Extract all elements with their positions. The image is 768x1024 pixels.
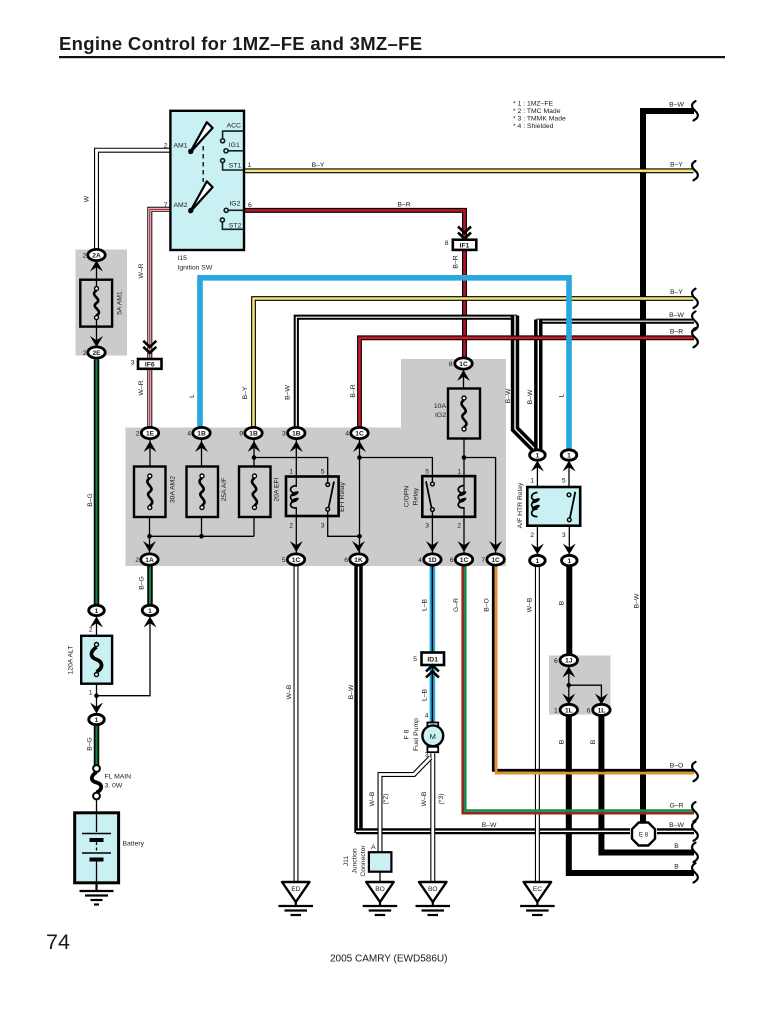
svg-text:L: L: [189, 394, 196, 398]
svg-text:3: 3: [425, 523, 429, 530]
svg-text:L–B: L–B: [422, 688, 429, 701]
wire J11 to ground BO: [379, 872, 381, 882]
svg-text:1C: 1C: [355, 430, 364, 437]
svg-text:(*3): (*3): [438, 794, 445, 805]
wire W-R from AM2 through IF6 to 1E: [150, 209, 171, 426]
svg-text:* 1 : 1MZ–FE: * 1 : 1MZ–FE: [513, 101, 554, 108]
rotated component labels: [68, 291, 525, 877]
node IG2 fuse output dot: [462, 455, 467, 460]
connector 1L pin1: [560, 704, 577, 715]
arrow up into 1J: [562, 667, 575, 678]
fusible link FL MAIN: [92, 765, 101, 799]
arrows down into row2 connectors: [143, 541, 156, 552]
wire 10A IG2 out to C/OPN pin1: [463, 439, 465, 493]
arrows up into row1 connectors: [144, 441, 157, 452]
wire branch IG2 to 1C7: [464, 458, 496, 554]
svg-text:ACC: ACC: [227, 123, 241, 130]
connector 1B pin9: [245, 427, 262, 438]
fuse 25A A/F: [187, 467, 219, 518]
svg-text:3: 3: [131, 359, 135, 366]
node fuse bus dot 2: [199, 534, 204, 539]
connector 1K pin6: [350, 554, 367, 565]
wire B from 1L1 to right edge: [569, 715, 694, 873]
hook B-Y 1: [692, 161, 698, 180]
wire AF HTR pin5 stub: [568, 460, 570, 495]
wire W-B from AF HTR pin2 (1) to EC ground: [535, 567, 540, 882]
fuse 10A IG2: [448, 389, 480, 439]
svg-text:1: 1: [457, 469, 461, 476]
svg-text:(*2): (*2): [383, 794, 390, 805]
wire 1G to 10A IG2 fuse: [463, 369, 465, 389]
svg-text:2: 2: [457, 523, 461, 530]
svg-text:5: 5: [413, 656, 417, 663]
svg-text:IF1: IF1: [460, 243, 470, 250]
svg-text:20A EFI: 20A EFI: [274, 477, 281, 501]
connector 1C pin4: [351, 427, 368, 438]
connector 1L pin6: [593, 704, 610, 715]
svg-text:B–G: B–G: [139, 576, 146, 590]
wire W-B branch to J11: [380, 758, 431, 853]
svg-text:6: 6: [587, 708, 591, 715]
wire EFI relay pin5 branch from 1B9 line: [254, 458, 328, 485]
svg-text:FL MAIN: FL MAIN: [105, 774, 132, 781]
svg-text:3: 3: [321, 523, 325, 530]
svg-text:1K: 1K: [354, 557, 363, 564]
wire (1) to 120A ALT: [96, 616, 98, 636]
svg-text:IG1: IG1: [229, 142, 240, 149]
node 1C4 line upper dot: [357, 455, 362, 460]
svg-text:B–W: B–W: [669, 312, 684, 319]
fuel pump F8: [422, 723, 443, 753]
svg-text:1B: 1B: [197, 430, 206, 437]
wire 1E to 30A AM2 fuse: [149, 440, 151, 467]
ignition ST2 terminal: [222, 222, 243, 229]
wire 120A ALT to junction and (1): [96, 684, 98, 714]
svg-text:Engine Control for 1MZ–FE and: Engine Control for 1MZ–FE and 3MZ–FE: [59, 33, 422, 54]
svg-text:L: L: [559, 393, 566, 397]
svg-text:A: A: [371, 844, 376, 851]
ground EC: [520, 882, 555, 915]
svg-text:1L: 1L: [598, 707, 606, 714]
wire W-B fuel pump to BO ground: [430, 754, 435, 883]
ignition AM2 contact: [189, 181, 213, 212]
svg-text:2: 2: [135, 557, 139, 564]
svg-text:9: 9: [239, 431, 243, 438]
arrow up into 1G: [457, 370, 470, 381]
wire B-G from 2E to (1): [94, 360, 100, 606]
arrows down into AF HTR bottom (1) connectors: [531, 544, 544, 555]
svg-text:G–R: G–R: [453, 598, 460, 612]
svg-text:W–B: W–B: [369, 791, 376, 806]
connector ID1: [422, 653, 445, 666]
connector (1) AF top right: [561, 450, 577, 460]
svg-text:B–G: B–G: [87, 493, 94, 507]
wire B-W run A: 1B3 up over to AF HTR (1): [296, 316, 536, 451]
svg-text:Relay: Relay: [413, 487, 420, 505]
connector 2A: [88, 249, 105, 260]
fuse output bus: [150, 535, 255, 537]
svg-text:B–R: B–R: [453, 255, 460, 268]
node ALT output dot: [94, 693, 99, 698]
wire B from AF HTR pin3 (1) to 1J: [566, 566, 572, 656]
svg-text:L–B: L–B: [422, 598, 429, 611]
wire B-O from 1C7 to right edge: [493, 566, 694, 773]
wire B-W run B: right edge to AF HTR (1): [537, 320, 695, 451]
relay C/OPN Relay: [422, 476, 475, 517]
svg-text:1: 1: [536, 558, 540, 565]
ignition IG2 terminal: [228, 209, 243, 211]
svg-text:* 3 : TMMK Made: * 3 : TMMK Made: [513, 116, 566, 123]
svg-text:B–Y: B–Y: [312, 162, 325, 169]
svg-text:ID1: ID1: [427, 657, 438, 664]
svg-text:2: 2: [289, 523, 293, 530]
svg-text:W–B: W–B: [421, 791, 428, 806]
svg-text:EFI Relay: EFI Relay: [339, 481, 346, 511]
svg-text:4: 4: [425, 713, 429, 720]
title underline: [59, 56, 725, 58]
fuse 20A EFI: [239, 467, 271, 518]
svg-text:B–W: B–W: [527, 389, 534, 404]
svg-text:B–W: B–W: [505, 388, 512, 403]
svg-text:1C: 1C: [460, 557, 469, 564]
svg-text:1: 1: [148, 608, 152, 615]
wire 1B9 to 20A EFI fuse: [253, 440, 255, 467]
svg-text:W–R: W–R: [138, 263, 145, 278]
svg-text:6: 6: [344, 557, 348, 564]
node 1J branch dot: [567, 683, 572, 688]
connector (1) AF top left: [530, 450, 546, 460]
connector 1J pin6: [560, 655, 577, 666]
fuse 5A AM1: [80, 249, 112, 352]
wire 20A EFI to bus: [253, 517, 255, 536]
fuse 30A AM2: [134, 467, 166, 518]
svg-text:Battery: Battery: [123, 841, 145, 848]
svg-text:2: 2: [530, 532, 534, 539]
hook B-W mid: [692, 311, 698, 330]
battery ground: [80, 883, 114, 905]
wire 1J to 1L1: [568, 685, 570, 704]
svg-text:B–W: B–W: [285, 385, 292, 400]
wire B from 1L6 to right edge: [601, 715, 694, 853]
svg-text:B–R: B–R: [397, 201, 410, 208]
svg-text:4: 4: [418, 557, 422, 564]
wire FL MAIN to battery: [96, 799, 98, 813]
svg-text:4: 4: [187, 431, 191, 438]
svg-text:BO: BO: [375, 886, 385, 893]
connector IF1: [453, 240, 477, 250]
wire AF HTR pin3 stub: [568, 521, 570, 555]
svg-text:1: 1: [95, 608, 99, 615]
svg-text:W: W: [84, 195, 91, 202]
ignition switch I15 box: [170, 111, 244, 250]
gray relay block box (upper, 10A IG2): [401, 359, 506, 428]
wire B-R from IG2 through IF1 to 1G: [244, 210, 465, 358]
wire ALT junction branch: [97, 616, 151, 696]
svg-text:IG2: IG2: [435, 412, 446, 419]
wire 1J to 1L branch: [569, 665, 602, 705]
connector 1B pin3: [288, 427, 305, 438]
hook B-W E8: [692, 822, 698, 841]
svg-text:B: B: [590, 739, 597, 744]
gray relay block box (small, 2A/2E 5A AM1): [76, 250, 128, 356]
ignition dashed link: [202, 146, 204, 182]
svg-text:1: 1: [567, 452, 571, 459]
svg-text:5: 5: [425, 469, 429, 476]
wire B-W thick from legend corner down to E8: [643, 111, 694, 823]
wire C/OPN coil pin2 to 1C6: [463, 507, 465, 553]
svg-text:8: 8: [445, 240, 449, 247]
connector 1G pin8: [455, 358, 472, 369]
legend note: [513, 101, 566, 131]
svg-text:B–W: B–W: [634, 593, 641, 608]
svg-text:2: 2: [136, 431, 140, 438]
svg-text:B–W: B–W: [482, 822, 497, 829]
svg-text:B–W: B–W: [669, 822, 684, 829]
rotated wire labels: [84, 195, 641, 806]
svg-text:B–O: B–O: [484, 598, 491, 612]
connector 1A: [141, 554, 158, 565]
svg-text:ED: ED: [291, 886, 300, 893]
svg-text:E 8: E 8: [639, 832, 649, 839]
wire 1C4 to 1K vertical: [359, 440, 361, 554]
svg-text:B: B: [674, 864, 679, 871]
svg-text:2: 2: [164, 143, 168, 150]
svg-text:C/OPN: C/OPN: [404, 486, 411, 508]
J11 junction connector box: [369, 852, 392, 872]
svg-text:1C: 1C: [459, 361, 468, 368]
hook G-R: [692, 802, 698, 821]
hook B-R: [692, 328, 698, 347]
wire L cyan from 1B4 over to AF HTR (1): [200, 278, 569, 450]
svg-text:AM1: AM1: [174, 143, 188, 150]
svg-text:F 8: F 8: [404, 729, 411, 739]
wire 25A AF to bus: [201, 517, 203, 536]
gray relay block box (main): [126, 428, 507, 567]
svg-text:B–Y: B–Y: [242, 386, 249, 399]
wire L-B from 1D through ID1 to fuel pump: [430, 566, 436, 723]
svg-text:2: 2: [83, 350, 87, 357]
arrow down into (1) below ALT: [90, 703, 103, 714]
svg-text:2: 2: [83, 253, 87, 260]
svg-text:1C: 1C: [292, 557, 301, 564]
svg-text:B–W: B–W: [669, 102, 684, 109]
connector 1D pin4: [424, 554, 441, 565]
svg-text:1: 1: [554, 708, 558, 715]
svg-text:30A AM2: 30A AM2: [170, 476, 177, 503]
arrow into ID1: [426, 665, 439, 677]
svg-text:2A: 2A: [92, 252, 101, 259]
svg-text:5: 5: [282, 557, 286, 564]
svg-text:3: 3: [425, 752, 429, 759]
connector E8 octagon: [632, 823, 655, 846]
connector (1) 1A side: [142, 605, 158, 615]
ground BO (J11): [363, 882, 398, 915]
svg-text:W–B: W–B: [527, 597, 534, 612]
svg-text:Junction: Junction: [352, 848, 359, 874]
arrows up into (1) ALT connectors: [90, 617, 103, 628]
wire B-Y from ST1 to right edge: [244, 168, 694, 173]
svg-text:6: 6: [554, 658, 558, 665]
ignition AM1 contact: [189, 122, 213, 153]
svg-text:A/F HTR Relay: A/F HTR Relay: [517, 482, 524, 528]
svg-text:10A: 10A: [434, 403, 447, 410]
svg-text:ST2: ST2: [229, 223, 242, 230]
svg-text:1C: 1C: [491, 557, 500, 564]
connector 1E: [141, 427, 158, 438]
svg-text:IG2: IG2: [229, 201, 240, 208]
hook B-Y 2: [692, 289, 698, 308]
node 1B9 branch dot: [252, 455, 257, 460]
svg-text:74: 74: [46, 930, 70, 954]
ground ED: [279, 882, 314, 915]
wire G-R from 1C6 to right edge: [463, 566, 694, 813]
svg-text:7: 7: [164, 202, 168, 209]
wire EFI relay pin3 to 1K junction: [328, 511, 360, 536]
svg-text:IF6: IF6: [145, 362, 155, 369]
svg-text:J11: J11: [343, 856, 350, 867]
svg-text:25A A/F: 25A A/F: [221, 478, 228, 502]
svg-text:3: 3: [562, 532, 566, 539]
gray box 1J/1L: [549, 656, 611, 715]
arrow down into 2E: [90, 336, 103, 347]
connector (1) ALT top: [89, 605, 105, 615]
svg-text:2: 2: [89, 627, 93, 634]
svg-text:3. 0W: 3. 0W: [105, 783, 123, 790]
wire B-R 2 from right edge to 1C4: [360, 338, 695, 427]
node 1C4 line lower dot: [357, 534, 362, 539]
svg-text:B: B: [559, 600, 566, 605]
arrows up into AF HTR top (1) connectors: [531, 461, 544, 472]
svg-text:3: 3: [282, 431, 286, 438]
wire B-W from 1K to E8 (black w/ white stripe): [356, 566, 694, 833]
svg-text:Connector: Connector: [360, 845, 367, 877]
svg-text:B–G: B–G: [87, 737, 94, 751]
connector (1) below ALT: [89, 714, 105, 724]
svg-text:6: 6: [248, 202, 252, 209]
ignition IG1 terminal: [228, 150, 243, 152]
wire B-G from 1A to (1): [147, 566, 153, 605]
svg-text:B–O: B–O: [670, 762, 684, 769]
svg-text:1: 1: [530, 478, 534, 485]
wire B-G from (1) to FL MAIN: [94, 725, 100, 766]
hook B-W top: [692, 101, 698, 120]
wire 1B4 cyan stub inside: [201, 440, 203, 467]
svg-text:1: 1: [248, 162, 252, 169]
svg-text:7: 7: [481, 557, 485, 564]
fuse 120A ALT: [81, 636, 112, 684]
connector (1) AF bottom left: [530, 555, 546, 565]
page-edge hooks: [692, 101, 698, 882]
svg-text:* 4 : Shielded: * 4 : Shielded: [513, 123, 554, 130]
svg-text:1D: 1D: [428, 557, 437, 564]
hook B lower: [692, 863, 698, 882]
wire 30A AM2 to bus: [149, 517, 151, 536]
svg-text:5: 5: [321, 469, 325, 476]
svg-text:1: 1: [289, 469, 293, 476]
svg-text:6: 6: [450, 557, 454, 564]
wire AF HTR pin1 stub: [536, 460, 538, 493]
svg-text:AM2: AM2: [174, 202, 188, 209]
svg-text:M: M: [430, 732, 436, 741]
svg-text:1E: 1E: [146, 430, 155, 437]
connector IF6: [138, 359, 162, 369]
relay A/F HTR Relay: [527, 487, 580, 526]
ignition ST1 terminal: [223, 163, 244, 170]
svg-text:2E: 2E: [92, 350, 101, 357]
svg-text:2005 CAMRY (EWD586U): 2005 CAMRY (EWD586U): [330, 954, 447, 965]
svg-text:BO: BO: [428, 886, 438, 893]
connector 1B pin4: [193, 427, 210, 438]
svg-text:1B: 1B: [249, 430, 258, 437]
svg-text:EC: EC: [533, 886, 542, 893]
svg-text:1: 1: [95, 717, 99, 724]
connector (1) AF bottom right: [562, 555, 578, 565]
svg-text:1L: 1L: [565, 707, 573, 714]
arrows down into 1L connectors: [562, 694, 575, 705]
svg-text:8: 8: [449, 361, 453, 368]
hook B-O: [692, 762, 698, 781]
svg-text:B: B: [674, 843, 679, 850]
relay EFI Relay: [286, 477, 339, 517]
wire bus to 1A: [149, 536, 151, 553]
svg-text:4: 4: [345, 431, 349, 438]
svg-text:B–Y: B–Y: [670, 289, 683, 296]
svg-text:1: 1: [536, 452, 540, 459]
node fuse bus dot 1: [147, 534, 152, 539]
svg-text:Fuel Pump: Fuel Pump: [413, 718, 420, 751]
svg-text:I15: I15: [178, 255, 188, 262]
svg-text:B–R: B–R: [350, 384, 357, 397]
wire C/OPN pin3 to 1D: [431, 512, 433, 554]
wire 1B3 to EFI relay pin1: [295, 440, 297, 488]
arrow into IF6: [143, 341, 156, 353]
svg-text:B–W: B–W: [348, 684, 355, 699]
wire W-B from 1C5 to ED ground: [294, 566, 299, 882]
battery: [75, 813, 119, 883]
svg-text:W–R: W–R: [138, 380, 145, 395]
svg-text:B: B: [559, 739, 566, 744]
svg-text:ST1: ST1: [229, 162, 242, 169]
svg-text:B–Y: B–Y: [670, 162, 683, 169]
svg-text:W–B: W–B: [286, 684, 293, 699]
svg-text:B–R: B–R: [670, 329, 683, 336]
svg-text:* 2 : TMC Made: * 2 : TMC Made: [513, 108, 561, 115]
arrow up into 2A: [90, 261, 103, 272]
wire branch to C/OPN pin5: [360, 458, 433, 482]
connector 1C pin6: [455, 554, 472, 565]
ground BO (pump): [416, 882, 451, 915]
svg-text:5A AM1: 5A AM1: [117, 291, 124, 315]
ignition ACC terminal: [223, 131, 244, 138]
connector rect labels: [145, 243, 470, 664]
wire W from AM1: [97, 150, 171, 249]
arrow into IF1: [458, 227, 471, 239]
svg-text:1B: 1B: [292, 430, 301, 437]
wire AF HTR pin2 stub: [536, 506, 538, 555]
svg-text:Ignition SW: Ignition SW: [178, 265, 213, 272]
wire B-Y 2 from right edge to 1B9: [254, 299, 694, 427]
connector 1C pin7: [487, 554, 504, 565]
svg-text:1A: 1A: [145, 557, 154, 564]
svg-text:1J: 1J: [565, 658, 573, 665]
svg-text:G–R: G–R: [670, 803, 684, 810]
hook B upper: [692, 843, 698, 862]
connector 1C pin5: [287, 554, 304, 565]
svg-text:1: 1: [89, 690, 93, 697]
svg-text:1: 1: [567, 558, 571, 565]
wire EFI relay pin2 to 1C5: [295, 507, 297, 553]
svg-text:120A ALT: 120A ALT: [68, 646, 75, 675]
